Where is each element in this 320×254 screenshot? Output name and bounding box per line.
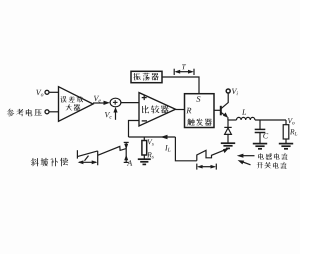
resistor Rs current sense [142,137,147,159]
inductor L [237,117,255,120]
label Vs [148,139,154,145]
label 开关电流 (switch current) [257,162,287,169]
wire comparator minus input feedback [129,121,140,138]
label C capacitor [263,133,268,138]
label Ve [94,96,101,103]
label IL [165,145,171,152]
reference voltage input terminal [45,110,49,114]
label T period [182,64,186,69]
op-amp error amplifier 误差放大器 [59,87,94,122]
flip-flop box 触发器 with S and R inputs [185,94,215,128]
wire Vo to error amplifier [49,91,59,93]
label Rs [147,152,154,158]
ground under capacitor [253,144,267,149]
arrowhead into summing junction [104,101,111,105]
capacitor C [255,120,266,144]
label 电感电流 (inductor current) [258,153,287,160]
leader arrow for 电感电流 [237,154,255,158]
label L inductor [242,110,246,115]
wire oscillator to S input of flip-flop [162,77,199,94]
diode D1 freewheeling [224,120,231,143]
label 振荡器 (oscillator) [133,73,158,81]
label 参考电压 (reference voltage) [7,109,42,117]
wire flip-flop output to transistor base [214,109,220,111]
ground under diode [221,143,235,148]
label A amplitude [127,160,132,165]
arrowhead IL current direction [161,135,168,139]
label Vi [232,89,238,96]
oscillator box 振荡器 [131,71,162,82]
slope compensation ramp waveform [77,146,126,165]
label 斜坡补偿 (slope compensation) [31,158,69,167]
wire summing junction to comparator plus input [121,102,139,104]
duty time marker under ramp [78,156,98,165]
node Vc input arrow into summing junction [113,107,117,120]
label 大器 (error amp line 2) [65,104,80,110]
label Vc [105,112,112,119]
wire rail down and right to waveform [175,137,196,161]
wire reference input to error amplifier [49,111,59,113]
input terminal Vo [45,90,49,94]
amplitude marker A [124,142,129,162]
wire inductor to output node [255,119,286,121]
label R input [186,108,191,114]
wire switch node to inductor [228,119,237,121]
label 触发器 (flip-flop) [187,118,212,125]
ground under load resistor [279,144,293,149]
label RL [290,129,297,135]
label Vo input [36,90,43,97]
summing junction [110,98,121,107]
period marker T dimension arrows [174,69,194,75]
label Vo output [288,118,295,124]
label 比较器 (comparator) [142,105,168,113]
resistor RL load [283,120,289,144]
ground under Rs [138,159,151,164]
wire IL sense rail [129,136,176,138]
leader arrow for 开关电流 [238,160,251,165]
comparator 比较器 [139,93,176,126]
arrowhead at end of switch current ramp [223,148,229,154]
wire comparator output to R input [176,109,185,111]
time marker under switch waveform [197,164,217,170]
transistor Q1 switch [221,93,228,120]
label 误差放 (error amp line 1) [60,96,83,102]
terminal Vi [226,89,230,93]
label S input [196,96,200,102]
switch current sawtooth waveform [197,148,229,161]
wire Ve from amplifier to summing junction [93,102,106,104]
